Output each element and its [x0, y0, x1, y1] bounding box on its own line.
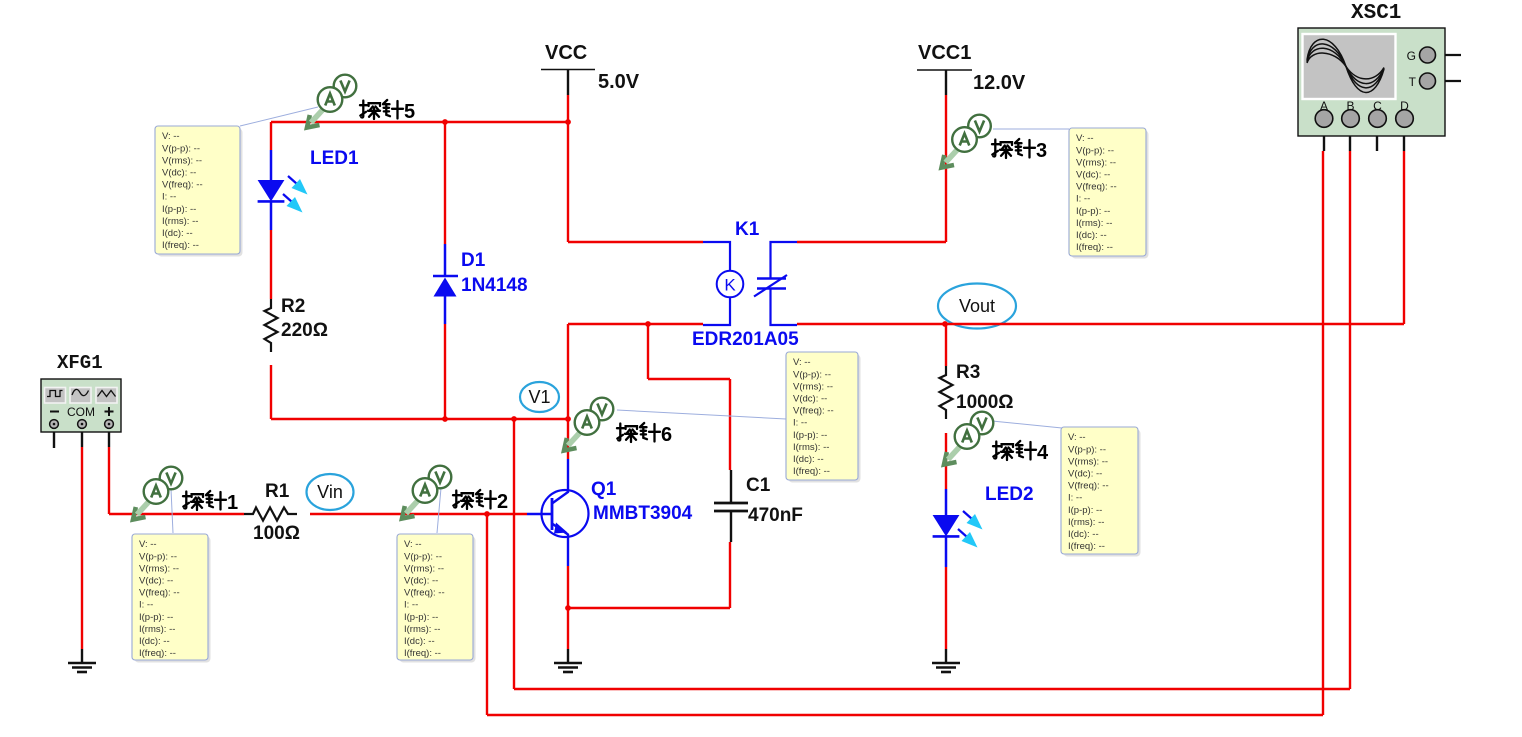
svg-text:R3: R3	[956, 362, 980, 383]
svg-text:MMBT3904: MMBT3904	[593, 503, 693, 524]
svg-text:1N4148: 1N4148	[461, 275, 528, 296]
svg-text:K: K	[724, 276, 736, 295]
svg-text:12.0V: 12.0V	[973, 72, 1026, 94]
svg-text:5: 5	[404, 101, 415, 123]
svg-text:LED1: LED1	[310, 148, 359, 169]
svg-text:3: 3	[1036, 140, 1047, 162]
svg-text:Vin: Vin	[317, 482, 343, 502]
svg-text:LED2: LED2	[985, 484, 1034, 505]
svg-text:EDR201A05: EDR201A05	[692, 329, 799, 350]
svg-text:5.0V: 5.0V	[598, 71, 640, 93]
svg-text:2: 2	[497, 491, 508, 513]
svg-text:6: 6	[661, 424, 672, 446]
svg-text:220Ω: 220Ω	[281, 320, 328, 341]
svg-text:1: 1	[227, 492, 238, 514]
svg-text:VCC: VCC	[545, 42, 587, 64]
svg-text:D1: D1	[461, 250, 486, 271]
svg-text:K1: K1	[735, 219, 760, 240]
svg-text:R2: R2	[281, 296, 305, 317]
svg-text:XFG1: XFG1	[57, 352, 103, 374]
svg-text:V1: V1	[528, 387, 550, 407]
svg-text:XSC1: XSC1	[1351, 2, 1401, 25]
svg-text:1000Ω: 1000Ω	[956, 392, 1014, 413]
svg-text:Q1: Q1	[591, 479, 617, 500]
svg-text:VCC1: VCC1	[918, 42, 971, 64]
svg-text:470nF: 470nF	[748, 505, 803, 526]
svg-text:C1: C1	[746, 475, 771, 496]
svg-text:R1: R1	[265, 481, 290, 502]
svg-text:COM: COM	[67, 405, 95, 419]
svg-text:Vout: Vout	[959, 296, 995, 316]
svg-text:4: 4	[1037, 442, 1049, 464]
svg-text:T: T	[1409, 75, 1417, 89]
svg-text:G: G	[1407, 49, 1416, 63]
svg-text:100Ω: 100Ω	[253, 523, 300, 544]
